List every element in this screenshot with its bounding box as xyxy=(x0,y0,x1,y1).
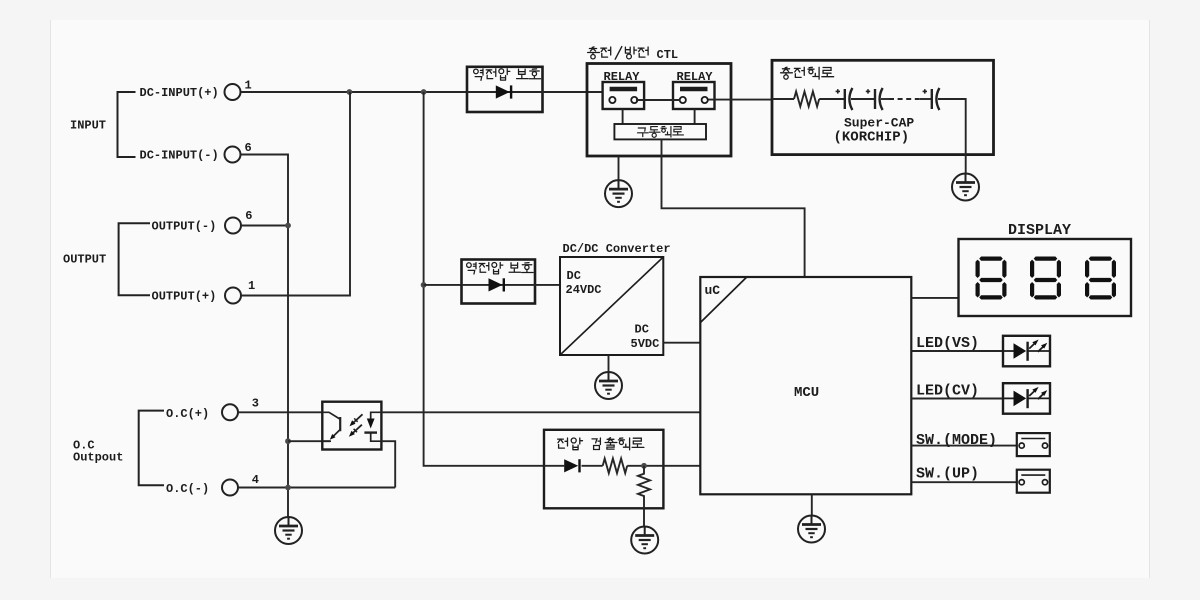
svg-text:(KORCHIP): (KORCHIP) xyxy=(834,130,910,146)
terminal 1 OUTPUT(+) xyxy=(225,288,241,304)
wire MCU to SW MODE xyxy=(911,445,1017,447)
wire relay1 to relay2 xyxy=(636,99,681,101)
MCU box U1 xyxy=(700,277,911,494)
uC corner diagonal xyxy=(700,277,747,323)
node dot on +bus B xyxy=(421,89,427,95)
seven segment digit 1 xyxy=(976,257,1007,300)
opto LED triangle xyxy=(367,419,375,429)
relay K1 xyxy=(603,82,645,109)
wire DC-INPUT(+) to protection box xyxy=(241,91,468,93)
ground charge circuit xyxy=(952,174,979,201)
opto LED cathode path xyxy=(371,433,382,442)
DC/DC diagonal xyxy=(560,257,663,355)
wire MCU to display xyxy=(911,297,958,299)
svg-text:DC: DC xyxy=(635,323,649,337)
wire bus B to reverse protection 2 xyxy=(424,284,462,286)
wire into charge circuit xyxy=(772,98,794,100)
wire dashes to C3 xyxy=(920,98,932,100)
wire resistor to node xyxy=(627,465,663,467)
switch SW UP xyxy=(1017,470,1050,493)
wire opto anode to MCU xyxy=(381,411,700,413)
terminal 3 O.C(+) xyxy=(222,404,238,420)
opto light arrow 1 xyxy=(353,414,363,423)
svg-text:DC: DC xyxy=(567,269,581,283)
O.C bracket xyxy=(139,411,164,486)
ground O.C minus bus xyxy=(275,517,302,544)
label 역전압 보호 (box2) xyxy=(467,263,476,274)
wire MCU to LED CV xyxy=(911,398,1003,400)
opto LED cathode bar xyxy=(364,431,377,433)
svg-text:O.C(-): O.C(-) xyxy=(166,482,209,496)
wire O.C(-) row xyxy=(238,487,395,489)
charge circuit box 충전회로 xyxy=(772,60,994,154)
wire detector input xyxy=(544,465,564,467)
wire C3 down to ground xyxy=(938,99,966,174)
node dot minus bus at opto emitter xyxy=(285,438,291,444)
switch SW MODE xyxy=(1017,433,1050,456)
LED VS indicator xyxy=(1003,336,1050,367)
ground detector xyxy=(631,527,658,554)
reverse protection box 2 xyxy=(462,260,536,304)
svg-text:6: 6 xyxy=(245,141,252,155)
svg-text:INPUT: INPUT xyxy=(70,119,106,133)
svg-text:OUTPUT(-): OUTPUT(-) xyxy=(152,220,217,234)
resistor R detect horizontal xyxy=(603,459,627,474)
wire diode to resistor xyxy=(582,465,603,467)
svg-text:Super-CAP: Super-CAP xyxy=(844,115,914,130)
node dot minus bus at OUTPUT(-) xyxy=(285,223,291,229)
node dot detector xyxy=(641,463,647,469)
wire emitter to minus bus xyxy=(288,440,330,442)
wire C1 to C2 xyxy=(851,98,875,100)
display box xyxy=(959,239,1132,316)
seven segment digit 3 xyxy=(1085,257,1116,300)
svg-text:DC/DC Converter: DC/DC Converter xyxy=(563,242,671,256)
resistor R charge xyxy=(794,92,819,107)
label 충전/방전 CTL xyxy=(588,47,600,59)
svg-text:CTL: CTL xyxy=(657,48,679,62)
wire C2 to dashes xyxy=(881,98,889,100)
seven segment digit 2 xyxy=(1030,257,1061,300)
terminal 6 OUTPUT(-) xyxy=(225,218,241,234)
wire MCU ground stem xyxy=(811,494,813,515)
capacitor C1 xyxy=(836,88,853,110)
svg-text:1: 1 xyxy=(248,279,255,293)
capacitor C3 xyxy=(923,88,940,110)
diode D2 xyxy=(489,278,504,291)
wire inside protection 2 xyxy=(462,284,536,286)
svg-text:OUTPUT(+): OUTPUT(+) xyxy=(152,290,217,304)
wire detector to MCU xyxy=(663,465,700,467)
ground CTL xyxy=(605,180,632,207)
diode D3 xyxy=(564,459,579,472)
label 역전압 보호 (box1) xyxy=(474,69,483,80)
resistor R divider vertical xyxy=(638,466,650,527)
wire CTL ground stem xyxy=(618,156,620,180)
wire inside protection 1 xyxy=(467,91,543,93)
node dot on +bus A xyxy=(347,89,353,95)
opto emitter with arrow xyxy=(333,430,340,437)
svg-text:3: 3 xyxy=(252,396,259,410)
terminal 4 O.C(-) xyxy=(222,480,238,496)
wire relay2 stem xyxy=(694,109,696,124)
dashed omission line xyxy=(889,98,920,100)
driver circuit box 구동회로 xyxy=(614,124,706,139)
wire MCU to SW UP xyxy=(911,481,1017,483)
wire resistor to C1 xyxy=(819,98,845,100)
svg-text:24VDC: 24VDC xyxy=(566,283,602,297)
svg-text:Outpout: Outpout xyxy=(73,451,123,465)
svg-text:LED(VS): LED(VS) xyxy=(916,335,979,352)
capacitor C2 xyxy=(866,88,883,110)
ground MCU xyxy=(798,516,825,543)
opto LED anode path xyxy=(371,412,382,418)
label 전압 검출회로 xyxy=(558,438,568,448)
svg-text:SW.(MODE): SW.(MODE) xyxy=(916,432,997,449)
wire DC-INPUT(-) to minus bus xyxy=(241,155,289,518)
INPUT bracket xyxy=(118,92,136,157)
CTL box xyxy=(587,64,731,157)
svg-text:OUTPUT: OUTPUT xyxy=(63,253,106,267)
svg-text:uC: uC xyxy=(705,283,721,298)
wire relay2 to charge circuit xyxy=(709,99,773,101)
wire DC/DC ground stem xyxy=(608,355,610,372)
DC/DC converter box U2 xyxy=(560,257,663,355)
node dot bus B at 24V branch xyxy=(421,282,427,288)
wire OUTPUT(+) riser to +wire xyxy=(241,92,350,296)
diode D1 xyxy=(496,85,511,98)
svg-text:SW.(UP): SW.(UP) xyxy=(916,466,979,483)
svg-text:5VDC: 5VDC xyxy=(631,337,660,351)
ground DC/DC xyxy=(595,372,622,399)
node dot minus bus at O.C(-) xyxy=(285,485,291,491)
svg-text:DC-INPUT(-): DC-INPUT(-) xyxy=(140,149,219,163)
label 충전회로 xyxy=(781,67,793,79)
wire MCU to LED VS xyxy=(911,350,1003,352)
vertical bus B down to detector xyxy=(424,92,544,466)
opto-coupler U3 box xyxy=(322,402,381,450)
relay K2 xyxy=(673,82,715,109)
wire OUTPUT(-) to minus bus xyxy=(241,225,288,227)
svg-text:DISPLAY: DISPLAY xyxy=(1008,222,1071,239)
LED CV indicator xyxy=(1003,383,1050,414)
wire 5VDC to MCU xyxy=(663,342,700,344)
reverse protection box 1 xyxy=(467,67,543,112)
svg-text:4: 4 xyxy=(252,473,259,487)
opto light arrow 2 xyxy=(352,425,362,434)
OUTPUT bracket xyxy=(119,223,150,295)
wire O.C(+) to opto xyxy=(238,411,322,413)
svg-text:1: 1 xyxy=(245,79,252,93)
svg-text:MCU: MCU xyxy=(794,385,819,401)
svg-text:LED(CV): LED(CV) xyxy=(916,383,979,400)
terminal 6 DC-INPUT(-) xyxy=(225,147,241,163)
terminal 1 DC-INPUT(+) xyxy=(225,84,241,100)
voltage detector box 전압 검출회로 xyxy=(544,430,663,509)
svg-text:6: 6 xyxy=(245,209,252,223)
wire protection2 to DC/DC xyxy=(535,284,560,286)
svg-text:DC-INPUT(+): DC-INPUT(+) xyxy=(140,86,219,100)
wire protection1 to CTL xyxy=(543,91,603,93)
wire opto cathode return xyxy=(381,441,395,487)
wire relay1 stem xyxy=(622,109,624,124)
opto transistor bar xyxy=(339,417,341,431)
opto phototransistor collector xyxy=(322,412,340,419)
svg-text:O.C(+): O.C(+) xyxy=(166,407,209,421)
wire driver to MCU xyxy=(662,139,805,277)
